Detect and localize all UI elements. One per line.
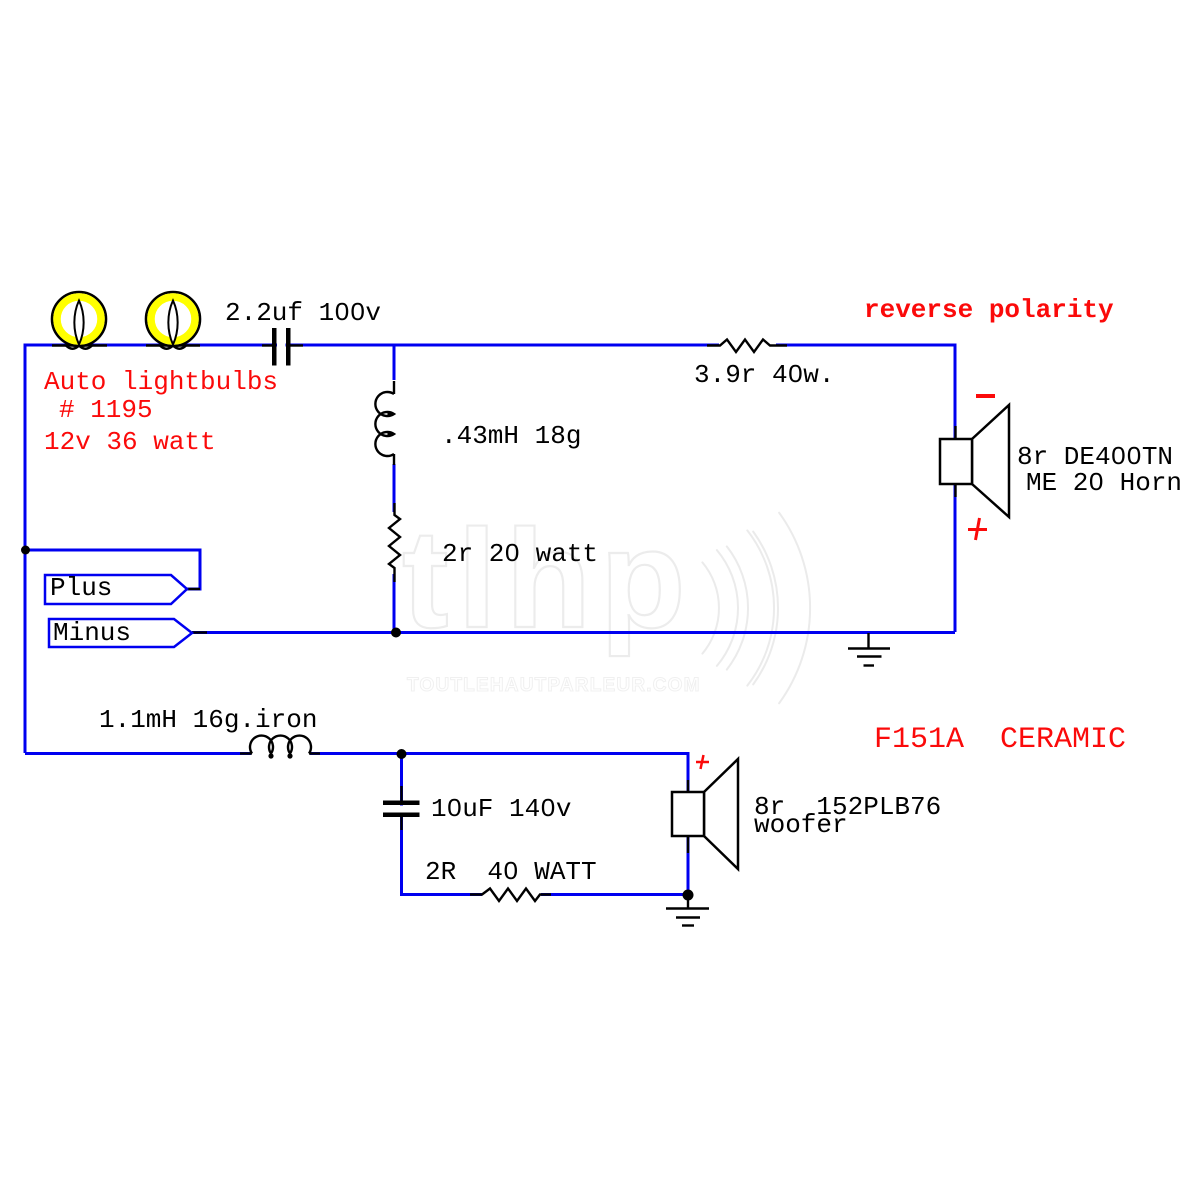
svg-text:3.9r 40w.: 3.9r 40w. (694, 360, 834, 390)
svg-text:reverse polarity: reverse polarity (864, 295, 1114, 325)
svg-text:Plus: Plus (50, 573, 112, 603)
svg-text:woofer: woofer (754, 810, 848, 840)
svg-text:# 1195: # 1195 (59, 395, 153, 425)
svg-text:F151A CERAMIC: F151A CERAMIC (874, 723, 1126, 757)
svg-text:Auto lightbulbs: Auto lightbulbs (44, 367, 278, 397)
svg-text:TOUTLEHAUTPARLEUR.COM: TOUTLEHAUTPARLEUR.COM (407, 675, 701, 696)
svg-text:ME 20 Horn: ME 20 Horn (1026, 468, 1182, 498)
svg-text:12v 36 watt: 12v 36 watt (44, 427, 216, 457)
svg-text:1.1mH 16g.iron: 1.1mH 16g.iron (99, 705, 317, 735)
svg-text:2r 20 watt: 2r 20 watt (442, 539, 598, 569)
svg-text:Minus: Minus (53, 618, 131, 648)
svg-text:.43mH 18g: .43mH 18g (441, 421, 581, 451)
svg-text:10uF 140v: 10uF 140v (431, 794, 571, 824)
